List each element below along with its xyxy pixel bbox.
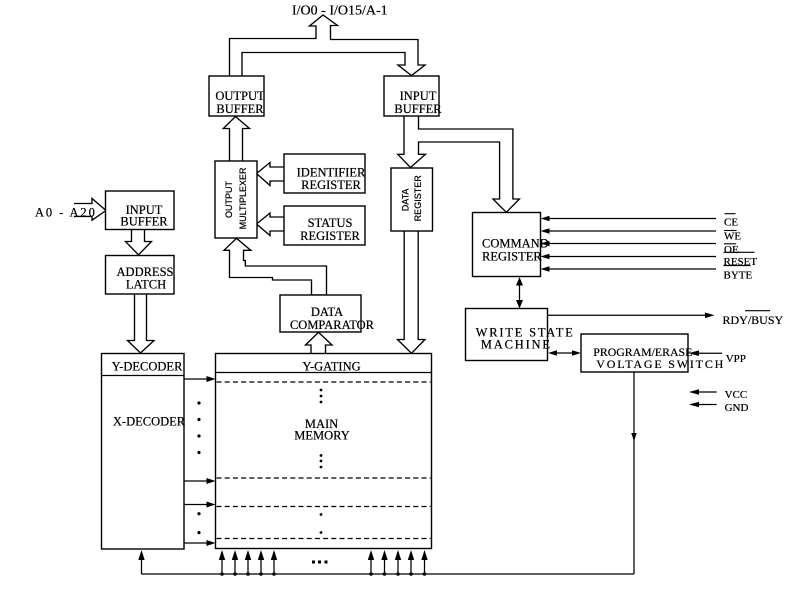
block IDENTIFIER REGISTER bbox=[284, 154, 365, 193]
svg-text:COMMAND: COMMAND bbox=[482, 236, 549, 250]
wire RDY/BUSY from write state machine bbox=[548, 314, 706, 316]
svg-text:MEMORY: MEMORY bbox=[294, 429, 350, 443]
block DATA REGISTER bbox=[391, 168, 433, 231]
arrow rail to decoder bbox=[141, 559, 143, 574]
svg-text:OUTPUT: OUTPUT bbox=[215, 89, 265, 103]
svg-text:COMPARATOR: COMPARATOR bbox=[290, 318, 375, 332]
block STATUS REGISTER bbox=[284, 206, 365, 245]
svg-text:RDY/BUSY: RDY/BUSY bbox=[723, 313, 784, 327]
wire decoder to memory 2 bbox=[184, 480, 208, 482]
dashed section line 3 bbox=[217, 506, 431, 508]
svg-text:LATCH: LATCH bbox=[126, 278, 166, 292]
wire VCC bbox=[698, 391, 717, 393]
svg-text:WE: WE bbox=[724, 231, 741, 243]
arrow A0-A20 to input buffer bbox=[74, 199, 106, 221]
svg-text:BYTE: BYTE bbox=[724, 269, 753, 281]
svg-text:A0 - A20: A0 - A20 bbox=[35, 206, 97, 220]
block OUTPUT BUFFER bbox=[209, 76, 264, 116]
svg-text:DATA: DATA bbox=[401, 189, 411, 212]
svg-text:OUTPUT: OUTPUT bbox=[224, 181, 234, 219]
arrow address latch to y-decoder bbox=[128, 294, 155, 353]
wire write state machine to voltage switch double arrow bbox=[556, 352, 573, 354]
svg-text:GND: GND bbox=[725, 402, 749, 414]
arrow y-gating to data comparator bbox=[306, 332, 333, 353]
block PROGRAM/ERASE VOLTAGE SWITCH bbox=[581, 334, 688, 372]
svg-text:OE: OE bbox=[724, 244, 739, 256]
y-gating header line bbox=[216, 372, 432, 374]
bottom rail wire bbox=[142, 573, 635, 575]
svg-text:BUFFER: BUFFER bbox=[394, 102, 442, 116]
svg-text:BUFFER: BUFFER bbox=[216, 102, 264, 116]
block X/Y-DECODER bbox=[102, 354, 185, 550]
block MAIN MEMORY / Y-GATING bbox=[216, 354, 432, 549]
svg-text:STATUS: STATUS bbox=[308, 216, 353, 230]
dots column between decoder and memory bbox=[197, 401, 200, 404]
wire decoder to memory 3 bbox=[184, 504, 208, 506]
svg-text:REGISTER: REGISTER bbox=[301, 178, 361, 192]
wire decoder to memory 1 bbox=[184, 378, 208, 380]
arrows rail to main memory right group bbox=[370, 559, 372, 574]
svg-text:REGISTER: REGISTER bbox=[300, 229, 360, 243]
wire command register to write state machine double arrow bbox=[519, 284, 521, 302]
block INPUT BUFFER left bbox=[106, 191, 175, 230]
arrow identifier register to mux bbox=[257, 163, 284, 186]
block COMMAND REGISTER bbox=[473, 213, 541, 277]
wire GND bbox=[698, 404, 717, 406]
bus I/O hollow arrow top bbox=[230, 15, 426, 76]
arrow data comparator to mux bbox=[224, 238, 327, 295]
svg-text:MULTIPLEXER: MULTIPLEXER bbox=[238, 167, 248, 229]
wire RESET to command register bbox=[550, 256, 717, 258]
wire OE to command register bbox=[550, 243, 717, 245]
svg-text:BUFFER: BUFFER bbox=[120, 215, 168, 229]
y-decoder header line bbox=[102, 375, 185, 377]
ellipsis dots bottom bbox=[312, 561, 315, 564]
wire WE to command register bbox=[550, 230, 717, 232]
wire voltage switch to bottom rail bbox=[633, 372, 635, 574]
svg-text:MACHINE: MACHINE bbox=[481, 338, 552, 352]
svg-text:Y-GATING: Y-GATING bbox=[302, 360, 360, 374]
arrow mux to output buffer bbox=[223, 117, 249, 162]
wire CE to command register bbox=[550, 218, 717, 220]
svg-text:VCC: VCC bbox=[725, 389, 748, 401]
block WRITE STATE MACHINE bbox=[466, 309, 548, 361]
wire decoder to memory 4 bbox=[184, 542, 208, 544]
block OUTPUT MULTIPLEXER bbox=[215, 161, 257, 238]
dashed section line 2 bbox=[217, 477, 431, 479]
arrow status register to mux bbox=[257, 213, 284, 236]
svg-text:INPUT: INPUT bbox=[400, 89, 437, 103]
wire BYTE to command register bbox=[550, 268, 717, 270]
svg-text:X-DECODER: X-DECODER bbox=[113, 415, 186, 429]
arrow input buffer to address latch bbox=[126, 230, 152, 255]
svg-text:Y-DECODER: Y-DECODER bbox=[112, 360, 183, 374]
svg-text:REGISTER: REGISTER bbox=[413, 175, 423, 222]
svg-text:REGISTER: REGISTER bbox=[482, 250, 542, 264]
wire VPP to voltage switch bbox=[698, 352, 722, 354]
bus input buffer to data register and command register bbox=[398, 117, 520, 213]
svg-text:VPP: VPP bbox=[726, 353, 746, 365]
svg-text:DATA: DATA bbox=[311, 305, 343, 319]
block INPUT BUFFER top bbox=[384, 76, 439, 116]
svg-text:CE: CE bbox=[724, 217, 738, 229]
bus data register to memory bbox=[398, 231, 426, 353]
dashed section line 4 bbox=[217, 538, 431, 540]
svg-text:VOLTAGE SWITCH: VOLTAGE SWITCH bbox=[596, 357, 725, 371]
svg-text:I/O0 - I/O15/A-1: I/O0 - I/O15/A-1 bbox=[292, 4, 388, 19]
block DATA COMPARATOR bbox=[280, 295, 361, 332]
block ADDRESS LATCH bbox=[106, 256, 175, 295]
arrows rail to main memory left group bbox=[221, 559, 223, 574]
dashed section line 1 bbox=[217, 381, 431, 383]
dots column inside main memory bbox=[320, 389, 323, 392]
